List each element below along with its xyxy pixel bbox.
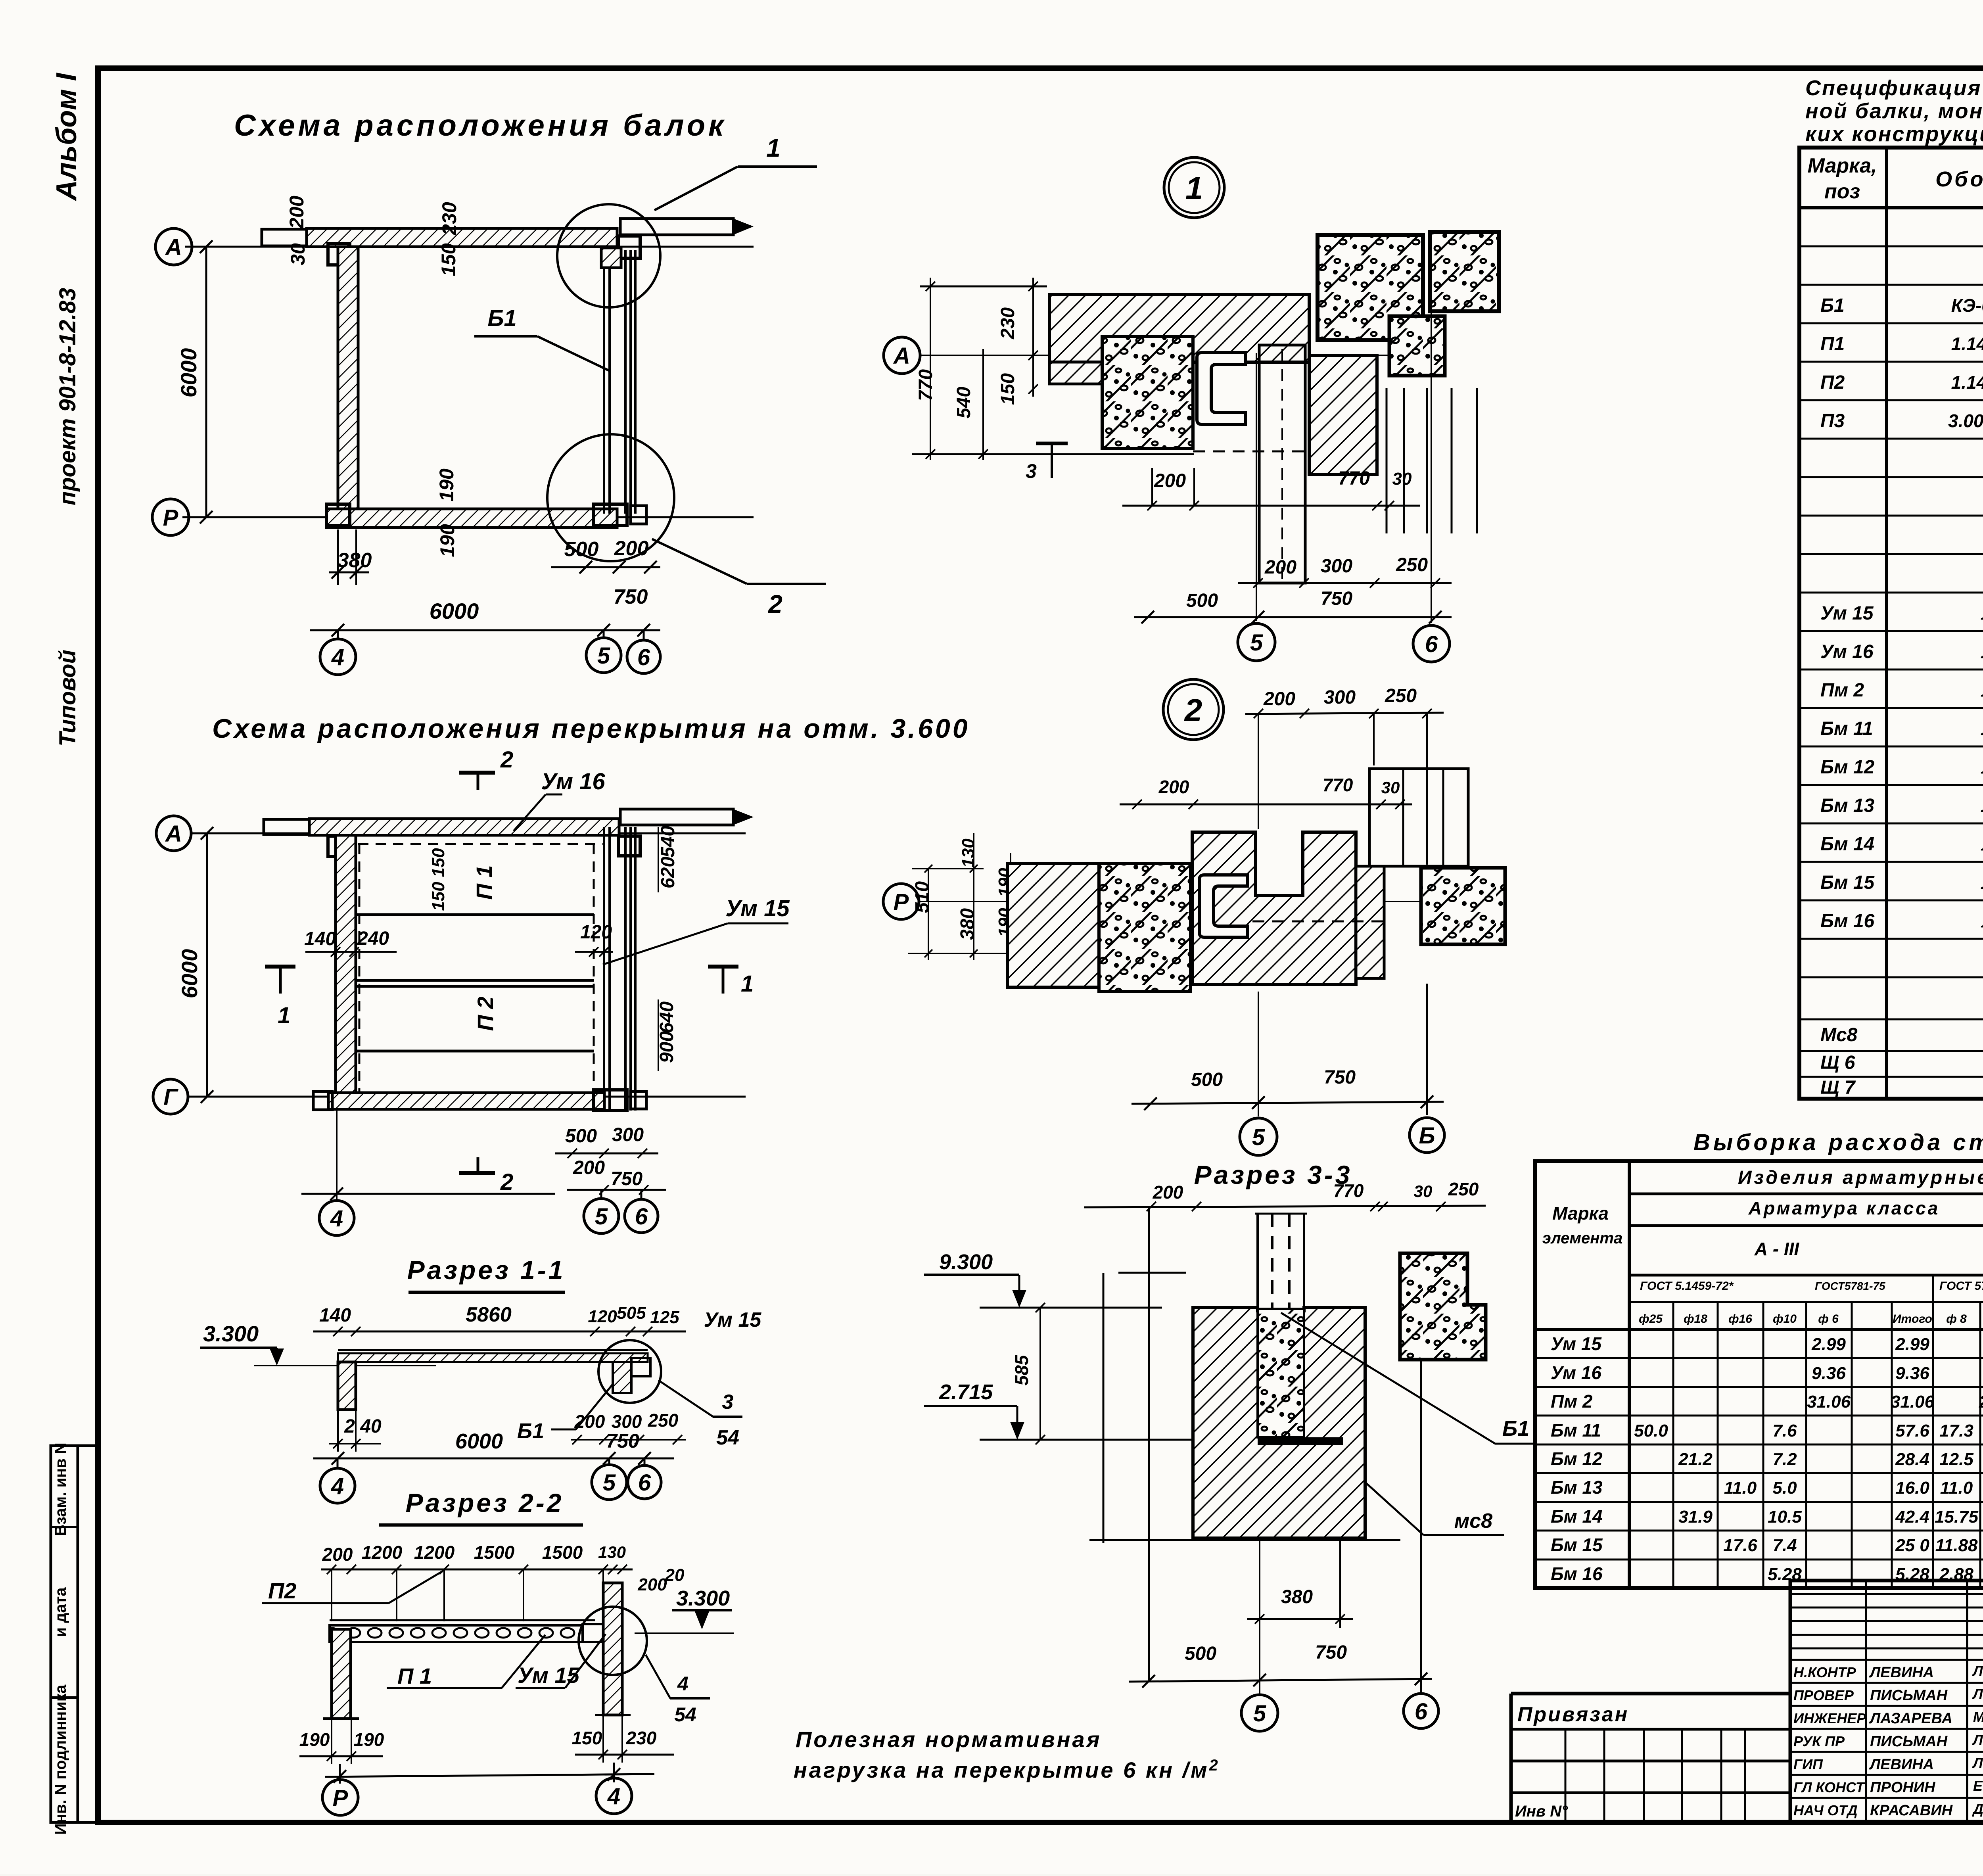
top beam hatched (plan B) [309,819,619,835]
svg-text:КЭ-01-58 вып.1: КЭ-01-58 вып.1 [1951,295,1983,316]
svg-text:Пм 2: Пм 2 [1820,680,1864,701]
svg-text:190: 190 [299,1729,330,1750]
svg-text:Ум 16: Ум 16 [541,769,605,794]
svg-text:ф25: ф25 [1639,1312,1663,1325]
svg-text:Б: Б [1419,1123,1435,1149]
svg-text:1500: 1500 [474,1542,515,1563]
svg-text:Разрез 3-3: Разрез 3-3 [1194,1160,1352,1189]
svg-text:5: 5 [1252,1124,1265,1150]
svg-text:620: 620 [658,857,679,888]
svg-text:Ум 15: Ум 15 [704,1308,762,1331]
svg-text:6000: 6000 [430,598,479,623]
svg-text:5: 5 [1253,1701,1266,1726]
svg-text:ф 6: ф 6 [1818,1312,1839,1325]
dim verticals left (detail 1) [930,278,931,460]
svg-text:Е.: Е. [1973,1778,1983,1794]
svg-text:Полезная нормативная: Полезная нормативная [796,1727,1102,1752]
svg-text:ГЛ КОНСТ: ГЛ КОНСТ [1793,1779,1866,1795]
left wall hatched (detail 2) [1007,863,1099,987]
svg-text:1200: 1200 [414,1542,455,1563]
axis circle А [156,816,191,851]
svg-text:750: 750 [1321,588,1352,609]
joint squares right (plan B) [619,836,640,856]
svg-text:Пм 2: Пм 2 [1551,1391,1593,1412]
svg-text:ГОСТ 5781-75: ГОСТ 5781-75 [1939,1279,1983,1293]
detail node 1 circle [1164,157,1224,218]
svg-text:ПРОВЕР: ПРОВЕР [1793,1687,1854,1703]
svg-text:Итого: Итого [1893,1312,1932,1325]
svg-text:Изделия арматурные: Изделия арматурные [1738,1167,1983,1188]
svg-text:1: 1 [766,134,781,162]
interior beam lines (Бм) [356,913,594,916]
svg-text:Бм 12: Бм 12 [1820,757,1875,778]
svg-text:Привязан: Привязан [1517,1703,1629,1726]
wall face verticals right (detail 1) [1386,388,1388,533]
svg-text:7.2: 7.2 [1772,1450,1797,1469]
axis verticals 5 6 (detail 1) [1256,353,1257,621]
svg-text:230: 230 [438,202,460,236]
vertical dim 6000 (plan B) [206,833,208,1097]
svg-text:500: 500 [565,1126,597,1147]
svg-text:130: 130 [598,1543,626,1561]
svg-text:Бм 16: Бм 16 [1551,1563,1603,1584]
top beam left plate [262,229,307,246]
svg-text:150: 150 [437,243,460,276]
svg-text:120: 120 [588,1307,617,1326]
svg-text:300: 300 [1324,687,1356,708]
svg-text:15.75: 15.75 [1935,1507,1979,1527]
svg-text:ГИП: ГИП [1793,1756,1823,1772]
beam above right (detail 2) [1369,769,1468,866]
svg-text:140: 140 [304,928,336,950]
svg-text:770: 770 [1333,1180,1364,1201]
svg-text:21.2: 21.2 [1678,1450,1713,1469]
svg-text:Разрез 1-1: Разрез 1-1 [407,1255,566,1285]
svg-text:Типовой: Типовой [55,650,81,746]
svg-text:Б1: Б1 [1502,1417,1529,1441]
steel channel (detail 2) [1199,875,1248,937]
svg-text:230: 230 [626,1728,657,1748]
bottom joint squares [594,504,627,526]
svg-text:200: 200 [614,537,649,560]
svg-text:150: 150 [572,1728,602,1748]
svg-text:2 40: 2 40 [344,1416,382,1437]
axis circle 5 [586,638,621,673]
svg-text:5.0: 5.0 [1772,1478,1797,1498]
small precast block (detail 1) [1389,316,1445,376]
svg-text:Мс8: Мс8 [1820,1024,1858,1045]
svg-text:элемента: элемента [1542,1230,1622,1247]
svg-text:5: 5 [1250,630,1263,656]
svg-text:Инв. N подлинника: Инв. N подлинника [52,1684,69,1835]
svg-text:Бм 15: Бм 15 [1820,872,1875,893]
leader to detail 1 [654,167,738,210]
svg-text:П 1: П 1 [397,1663,432,1688]
svg-text:ПИСЬМАН: ПИСЬМАН [1870,1687,1948,1704]
detail circle 1 (top) [557,204,660,307]
axis line Р (detail 2) [919,901,1424,902]
right precast Г-block (3-3) [1400,1253,1486,1360]
axis circle 4 [320,639,356,675]
top dim row (2-2) [321,1569,633,1571]
right precast block (detail 2) [1421,868,1505,944]
svg-text:11.0: 11.0 [1940,1478,1973,1498]
beam band left step (detail 1) [1049,362,1102,384]
svg-text:Ум 16: Ум 16 [1551,1362,1601,1383]
svg-text:17.3: 17.3 [1939,1421,1973,1441]
axis circle Р [322,1780,358,1815]
hidden edge dashed (detail 1) [1193,451,1309,453]
svg-text:П2: П2 [1820,372,1845,393]
svg-text:230: 230 [997,307,1018,340]
axis circle 5 [1241,1695,1278,1731]
axis circle 5 [1238,623,1275,661]
svg-text:30: 30 [1392,469,1412,489]
steel channel Мс8 (detail 1) [1197,353,1245,424]
svg-text:500: 500 [564,538,599,561]
svg-text:Б1: Б1 [1820,295,1845,316]
svg-text:900: 900 [656,1031,677,1063]
svg-text:250: 250 [648,1410,679,1431]
axis line А (detail 1) [920,355,1424,356]
svg-text:300: 300 [612,1411,642,1432]
embed square at bottom-left beam end [326,504,350,526]
detail circle (1-1 right) [598,1340,661,1403]
step hatched right (detail 2) [1356,866,1384,978]
axis circle Р [883,884,919,919]
svg-text:42.4: 42.4 [1895,1507,1929,1527]
precast slab block far right (detail 1) [1430,232,1499,311]
svg-text:10.5: 10.5 [1768,1507,1802,1527]
svg-text:ф10: ф10 [1773,1312,1797,1325]
svg-text:Бм 12: Бм 12 [1551,1448,1603,1469]
svg-text:150: 150 [429,882,448,911]
svg-text:540: 540 [658,826,679,857]
dims 500 / 200 [551,566,660,568]
svg-text:6: 6 [1415,1699,1428,1724]
axis circle Р [152,499,189,535]
svg-text:9.36: 9.36 [1895,1364,1929,1383]
svg-text:1500: 1500 [542,1542,583,1563]
svg-text:4: 4 [331,1473,344,1499]
svg-text:30: 30 [1414,1182,1433,1201]
svg-text:2.99: 2.99 [1811,1335,1846,1354]
axis circle 6 [1413,625,1450,662]
svg-text:200: 200 [1264,557,1296,578]
svg-text:Млая: Млая [1973,1709,1983,1725]
top dim line (detail 1) [920,286,1047,288]
level line 3.300 (3-3) [980,1307,1162,1309]
right beam verticals (plan B) [603,827,605,1111]
axis circle 4 [320,1468,355,1503]
svg-text:22.12: 22.12 [1979,1392,1983,1412]
svg-text:7.4: 7.4 [1772,1536,1797,1555]
svg-text:КРАСАВИН: КРАСАВИН [1870,1802,1953,1819]
svg-text:6000: 6000 [176,348,201,398]
svg-text:1.141-1 вып. 59: 1.141-1 вып. 59 [1951,372,1983,393]
svg-text:Бм 13: Бм 13 [1551,1477,1603,1498]
monolith joint at right of slab (2-2) [583,1624,603,1642]
section mark 2 (top) [459,771,495,775]
svg-text:150: 150 [997,373,1018,405]
svg-text:770: 770 [1323,775,1353,795]
axis circle Б [1410,1118,1444,1153]
svg-text:Г: Г [163,1084,178,1110]
svg-text:ф 8: ф 8 [1946,1312,1967,1325]
svg-text:1: 1 [1185,171,1203,206]
svg-text:Схема расположения перекрыти: Схема расположения перекрытия на отм. 3.… [212,714,970,744]
beam Б1 cross-section at right (1-1) [613,1362,631,1393]
steel table grid [1535,1161,1983,1588]
main hatched beam (detail 2) [1192,832,1356,984]
svg-text:9.36: 9.36 [1812,1364,1846,1383]
svg-text:П3: П3 [1820,410,1845,432]
section mark 2 (bottom) [459,1171,495,1175]
svg-text:20: 20 [665,1565,685,1585]
svg-text:200: 200 [574,1411,605,1432]
svg-text:Р: Р [333,1785,348,1811]
svg-text:3.006-2 вып. II-2: 3.006-2 вып. II-2 [1948,410,1983,431]
wall hatched (3-3) [1193,1308,1365,1538]
svg-text:мс8: мс8 [1454,1510,1492,1533]
svg-text:ЛЕВИНА: ЛЕВИНА [1869,1664,1934,1681]
bottom dim line (2-2) [325,1774,654,1777]
svg-text:Обозначение: Обозначение [1935,167,1983,191]
svg-text:57.6: 57.6 [1895,1421,1929,1441]
svg-text:5: 5 [595,1204,608,1230]
svg-text:2.99: 2.99 [1895,1335,1929,1354]
svg-text:проект 901-8-12.83: проект 901-8-12.83 [55,288,81,505]
svg-text:28.4: 28.4 [1895,1450,1929,1469]
svg-text:Ум 15: Ум 15 [1820,603,1874,624]
svg-text:500: 500 [1186,590,1218,611]
svg-text:Б1: Б1 [517,1419,544,1443]
svg-text:ПИСЬМАН: ПИСЬМАН [1870,1733,1948,1750]
svg-text:Выборка расхода стали н: Выборка расхода стали на элемент, кг [1693,1130,1983,1155]
svg-text:770: 770 [1338,468,1370,489]
verticals from dim row to slab (2-2) [331,1569,332,1621]
svg-text:ких конструкций на отм. 3: ких конструкций на отм. 3.600 в осях Г-А… [1805,122,1983,146]
svg-text:11.0: 11.0 [1724,1478,1757,1498]
svg-text:640: 640 [656,1001,677,1033]
svg-text:ГОСТ 5.1459-72*: ГОСТ 5.1459-72* [1640,1279,1734,1293]
embed square bottom-left (plan B) [313,1091,332,1110]
svg-text:500: 500 [1191,1069,1223,1090]
svg-text:7.6: 7.6 [1772,1421,1797,1441]
top dim line (1-1) [313,1331,686,1333]
left wall (hatched) [338,247,358,517]
svg-text:130: 130 [959,838,978,868]
svg-text:380: 380 [957,908,978,940]
title block: signature stamp grid [1790,1581,1983,1822]
main beam band hatched (detail 1) [1049,294,1309,362]
svg-text:Лиев: Лиев [1972,1732,1983,1748]
right hatched column (detail 1) [1309,355,1377,474]
svg-text:6: 6 [637,645,650,670]
svg-text:250: 250 [1385,685,1417,706]
svg-text:585: 585 [1011,1354,1032,1385]
svg-text:П 1: П 1 [472,865,497,900]
svg-text:120: 120 [580,922,612,943]
hidden dashed outline of monolith areas [358,843,604,845]
svg-text:ИНЖЕНЕР: ИНЖЕНЕР [1793,1710,1866,1726]
svg-text:А - III: А - III [1754,1239,1800,1259]
svg-text:200: 200 [1158,777,1189,797]
left stamp strip boxes [51,1446,78,1822]
svg-text:6: 6 [638,1470,651,1496]
axis circle Г [153,1079,188,1114]
svg-text:Лиев: Лиев [1972,1686,1983,1702]
label Б1 with leader (3-3) [1281,1313,1495,1444]
top joint squares [619,236,640,258]
axis circle А [155,228,192,265]
svg-text:30: 30 [1381,778,1400,797]
left wall (2-2) [332,1629,351,1719]
svg-text:Марка: Марка [1552,1203,1609,1224]
dim 380 [329,572,369,574]
svg-text:Р: Р [894,889,909,915]
svg-text:2.715: 2.715 [939,1380,993,1404]
svg-text:17.6: 17.6 [1723,1536,1757,1555]
svg-text:25 0: 25 0 [1895,1536,1929,1555]
svg-text:1: 1 [278,1003,290,1028]
embed square below top beam (plan B) [328,836,350,857]
svg-text:Схема расположения балок: Схема расположения балок [234,109,727,142]
axis circle 6 [627,640,660,673]
hidden dashed edge (detail 2) [1252,921,1384,923]
svg-text:3.300: 3.300 [203,1321,259,1346]
svg-text:200: 200 [286,196,308,229]
svg-text:54: 54 [716,1426,739,1449]
svg-text:750: 750 [1315,1642,1347,1663]
top-right plate with arrow (plan B) [620,809,733,825]
svg-text:31.9: 31.9 [1678,1507,1713,1527]
concrete strip inside wall (3-3) [1258,1309,1304,1437]
svg-text:750: 750 [611,1168,642,1189]
svg-text:3: 3 [722,1391,734,1414]
svg-text:4: 4 [331,645,344,670]
right wall (2-2) [603,1583,622,1715]
svg-text:поз: поз [1824,180,1860,203]
svg-text:190: 190 [354,1729,384,1750]
svg-text:200: 200 [322,1544,353,1565]
svg-text:4: 4 [607,1784,620,1809]
svg-text:2: 2 [500,747,513,773]
svg-text:510: 510 [912,881,933,913]
embed square below top beam [328,244,350,265]
svg-text:Щ 6: Щ 6 [1820,1052,1855,1073]
svg-text:Марка,: Марка, [1808,154,1877,177]
top beam left plate (plan B) [264,819,309,834]
leader to detail 2 [652,539,747,584]
left wall hatched (plan B) [336,835,356,1109]
wall bottom line (3-3) [1089,1539,1400,1541]
axis line Г (plan B) [188,1096,746,1098]
svg-text:125: 125 [650,1308,679,1327]
formwork verticals (3-3) [1103,1273,1105,1543]
axis circle 6 [1404,1694,1438,1728]
svg-text:Б1: Б1 [487,305,516,331]
section mark 3 (left, detail 1) [1036,442,1068,445]
svg-text:300: 300 [1321,556,1352,577]
detail node 2 circle [1163,679,1224,740]
svg-text:Р: Р [163,505,178,531]
dowel verticals above wall (3-3) [1256,1214,1259,1308]
axis circle 6 [628,1466,661,1499]
svg-text:Ум 15: Ум 15 [518,1663,580,1688]
svg-text:250: 250 [1396,554,1428,575]
svg-text:Бм 13: Бм 13 [1820,795,1875,816]
svg-text:5: 5 [597,643,610,669]
svg-text:5: 5 [603,1470,616,1496]
svg-text:190: 190 [436,524,458,557]
svg-text:Спецификация сборных ж-б ко: Спецификация сборных ж-б конструкций пли… [1805,76,1983,100]
svg-text:ГОСТ5781-75: ГОСТ5781-75 [1815,1280,1885,1292]
svg-text:Бм 14: Бм 14 [1820,834,1874,855]
svg-text:200: 200 [1154,470,1186,491]
svg-text:2: 2 [768,590,782,618]
svg-text:190: 190 [435,468,458,502]
svg-text:140: 140 [319,1305,351,1326]
svg-text:ПРОНИН: ПРОНИН [1870,1779,1936,1796]
detail circle (2-2) [579,1607,647,1675]
svg-text:200: 200 [1263,689,1295,710]
svg-text:4: 4 [330,1206,343,1231]
top strap beam (обвязочная балка) hatched [307,228,617,247]
axis line А [185,246,754,248]
svg-text:Днев: Днев [1972,1801,1983,1817]
bottom-left dim line (detail 1) [912,453,1194,455]
concrete monolith (detail 2) [1099,863,1191,992]
svg-text:Бм 16: Бм 16 [1820,911,1875,932]
svg-text:500: 500 [1185,1643,1216,1664]
svg-text:Ум 15: Ум 15 [725,896,790,921]
svg-text:750: 750 [1324,1067,1356,1088]
svg-text:Бм 11: Бм 11 [1820,718,1873,739]
steel plate мс8 (3-3) [1258,1437,1343,1445]
svg-text:200: 200 [573,1157,605,1178]
svg-text:нагрузка на перекрытие: нагрузка на перекрытие 6 кн /м2 [794,1757,1220,1782]
svg-text:505: 505 [617,1303,646,1323]
svg-text:6000: 6000 [455,1429,503,1453]
label мс8 with leader (3-3) [1365,1482,1423,1535]
axis circle 5 [592,1465,627,1500]
svg-text:Ум 15: Ум 15 [1551,1333,1602,1354]
svg-text:2: 2 [500,1169,513,1195]
svg-text:380: 380 [1281,1586,1313,1607]
detail circle 2 (bottom) [547,434,674,561]
svg-text:Арматура класса: Арматура класса [1748,1198,1940,1218]
dim verticals (detail 2) [1258,714,1259,829]
axis circle 5 [1240,1118,1277,1155]
svg-text:А: А [893,343,910,369]
svg-text:1.141-1 вып. 59: 1.141-1 вып. 59 [1951,334,1983,354]
svg-text:ф18: ф18 [1684,1312,1707,1325]
axis circle А [884,337,920,374]
vertical plate strip (detail 1) [1259,345,1305,583]
svg-text:Бм 15: Бм 15 [1551,1535,1603,1555]
section mark 1 (right) [708,965,738,969]
svg-text:ф16: ф16 [1728,1312,1752,1325]
svg-text:6000: 6000 [177,949,202,999]
svg-text:ной балки, монолитных ж-б к: ной балки, монолитных ж-б конструкций и … [1805,99,1983,123]
svg-text:Ум 16: Ум 16 [1820,641,1874,662]
svg-text:540: 540 [953,387,974,418]
svg-text:Левич: Левич [1972,1755,1983,1771]
svg-text:300: 300 [612,1124,644,1145]
svg-text:Левее: Левее [1972,1663,1983,1679]
svg-text:Разрез 2-2: Разрез 2-2 [406,1488,564,1517]
